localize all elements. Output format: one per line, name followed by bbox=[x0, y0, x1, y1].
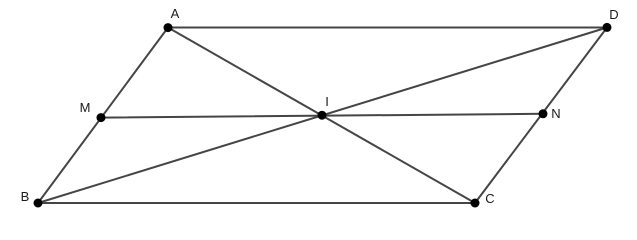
wire segment AD (top side) bbox=[168, 27, 607, 29]
wire segment AB (left side) bbox=[38, 28, 168, 204]
node M bbox=[97, 113, 106, 122]
node B bbox=[34, 199, 43, 208]
svg-text:I: I bbox=[325, 94, 329, 109]
svg-text:A: A bbox=[171, 6, 180, 21]
node I bbox=[318, 111, 327, 120]
svg-text:C: C bbox=[485, 191, 494, 206]
svg-text:D: D bbox=[609, 7, 618, 22]
svg-text:M: M bbox=[80, 100, 91, 115]
wire segment MN (midline) bbox=[101, 114, 543, 118]
wire segment AC (diagonal) bbox=[168, 28, 475, 204]
node N bbox=[539, 109, 548, 118]
node A bbox=[164, 23, 173, 32]
wire segment BC (bottom side) bbox=[38, 202, 475, 204]
svg-text:B: B bbox=[21, 189, 30, 204]
node C bbox=[471, 199, 480, 208]
svg-text:N: N bbox=[551, 106, 560, 121]
wire segment DC (right side) bbox=[475, 28, 607, 204]
wire segment BD (diagonal) bbox=[38, 28, 607, 204]
node D bbox=[603, 23, 612, 32]
